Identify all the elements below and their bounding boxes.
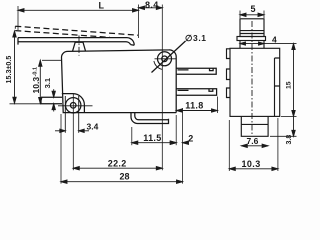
dim 3.1 vertical outside arrows (53, 89, 55, 97)
lever solid outline (18, 38, 134, 46)
dimension lines group (10, 5, 218, 184)
side body (230, 48, 280, 116)
lever dashed lower edge (15, 31, 110, 38)
lever dashed free position (15, 26, 138, 35)
left tab 2 (227, 69, 231, 80)
ext line x138.5 (138, 5, 140, 39)
ext line x229.3 (228, 120, 230, 171)
ext line x184 (182, 108, 184, 184)
svg-text:8.4: 8.4 (145, 0, 159, 10)
right recess (275, 58, 280, 116)
body bottom-left ear (62, 94, 85, 113)
dim 10.3 vertical (39, 60, 41, 103)
left tab 3 (227, 88, 231, 98)
terminal blade 1 (176, 68, 216, 74)
dim 3.8 vertical (293, 116, 295, 136)
svg-text:28: 28 (120, 172, 130, 182)
ext line x217.8 (217, 97, 219, 114)
svg-text:∅3.1: ∅3.1 (185, 33, 207, 43)
ext line x131 (131, 127, 133, 145)
svg-text:7.6: 7.6 (247, 136, 259, 146)
dim 28 line (61, 181, 183, 183)
left tab 1 (227, 49, 231, 59)
hole centerline horizontal bottom (58, 105, 93, 107)
svg-text:3.1: 3.1 (43, 78, 52, 88)
plunger (73, 42, 86, 51)
svg-text:11.8: 11.8 (185, 101, 203, 111)
svg-text:L: L (99, 1, 105, 11)
dim 22.2 line (73, 167, 162, 169)
dim 2 outside arrows (170, 141, 176, 144)
dim 4 line with outward arrows (240, 43, 297, 45)
svg-text:22.2: 22.2 (108, 158, 127, 168)
hole centerline horizontal top (155, 58, 177, 60)
dim 15 vertical (293, 44, 295, 117)
dim 10.3 line (229, 168, 278, 170)
ext line x73.3 (72, 94, 74, 170)
leader line diode3.1 (152, 41, 186, 73)
svg-text:4: 4 (272, 35, 277, 45)
slot side lines 3.4 (64, 96, 66, 133)
dim 5 line (240, 14, 264, 16)
dim 7.6 line (241, 145, 268, 147)
ref line y103 (10, 103, 42, 105)
ext line x162.3 long (161, 5, 163, 171)
corner arc near top-right hole (154, 61, 163, 69)
dim 11.8 line (176, 110, 217, 112)
plunger centerline (78, 35, 80, 55)
mounting hole top-right outer (158, 52, 172, 66)
ext line x176.5 (175, 115, 177, 145)
mounting hole bottom-left outer (66, 98, 81, 113)
side centerline (251, 21, 253, 134)
mounting hole top-right inner (162, 56, 168, 62)
terminal blade 2 (176, 89, 216, 96)
ext line y138.5 (270, 135, 297, 137)
dim 11.5 line (132, 142, 176, 144)
ext line x61 (60, 114, 62, 184)
right view dimensions (229, 11, 296, 172)
svg-text:10.3: 10.3 (242, 159, 261, 169)
bottom narrow section (241, 116, 268, 136)
mounting tab left (41, 97, 62, 104)
bottom terminal hook (131, 113, 169, 124)
dim 8.4 line (139, 7, 163, 9)
svg-text:3.4: 3.4 (87, 122, 99, 132)
svg-text:15: 15 (286, 81, 293, 89)
ext line y117 right (281, 115, 297, 117)
lever dashed left cap (14, 26, 16, 30)
dim L line (18, 9, 139, 11)
mounting hole bottom-left inner (70, 103, 76, 109)
svg-text:15.3±0.5: 15.3±0.5 (4, 56, 13, 84)
switch body outline (62, 50, 177, 113)
dim 15.3 vertical (14, 31, 16, 103)
svg-text:5: 5 (251, 4, 256, 14)
ext line x18 (17, 6, 19, 30)
ext line y60.3 (42, 59, 62, 61)
button internal lines (240, 31, 264, 34)
right side view (227, 19, 280, 137)
svg-text:3.8: 3.8 (286, 135, 293, 145)
ext ticks for 5 (239, 11, 241, 19)
ext line x277.9 (277, 118, 279, 171)
svg-text:2: 2 (188, 134, 193, 144)
dim 3.4 outside arrows (55, 130, 65, 132)
shaft lines (240, 41, 264, 49)
svg-text:11.5: 11.5 (143, 133, 161, 143)
button flange (237, 37, 266, 41)
button (240, 19, 264, 37)
